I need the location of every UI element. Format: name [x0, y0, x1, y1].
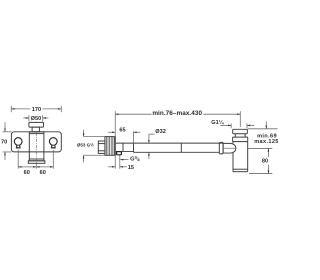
svg-text:Ø32: Ø32 — [155, 129, 166, 135]
svg-text:65: 65 — [119, 128, 125, 134]
svg-text:80: 80 — [262, 159, 268, 165]
svg-text:60: 60 — [40, 170, 46, 176]
svg-text:Ø50: Ø50 — [31, 116, 42, 122]
svg-text:170: 170 — [32, 107, 41, 113]
svg-text:15: 15 — [128, 165, 134, 171]
svg-text:max.125: max.125 — [254, 139, 279, 145]
svg-text:min.76–max.430: min.76–max.430 — [152, 110, 202, 117]
svg-text:70: 70 — [1, 139, 7, 145]
svg-text:60: 60 — [24, 170, 30, 176]
svg-text:G1¼: G1¼ — [211, 119, 224, 126]
svg-text:Ø53 G½: Ø53 G½ — [77, 142, 94, 148]
